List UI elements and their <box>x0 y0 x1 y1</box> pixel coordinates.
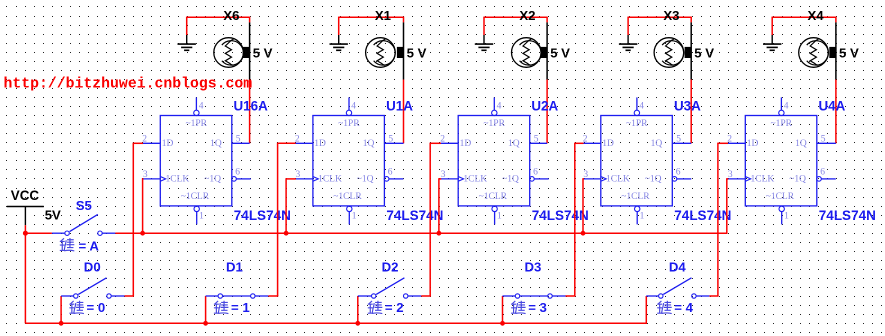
pin 1 (~1CLR) of U2A <box>492 206 502 224</box>
pin 5 (1Q) stub of U4A <box>817 135 836 145</box>
wire: lamp X6 to 1Q <box>249 80 251 144</box>
pin 2 (1D) stub of U16A <box>142 134 160 144</box>
wire: top wire X4 group <box>772 17 836 35</box>
wire: VCC junction to S5 <box>25 232 52 234</box>
op-amp/flip-flop U3A 74LS74N body <box>601 116 673 206</box>
lamp X2 <box>512 22 548 79</box>
inner pin labels of U3A <box>602 119 662 202</box>
svg-text:5: 5 <box>388 135 393 145</box>
svg-text:6: 6 <box>533 167 538 177</box>
switch S5 <box>52 214 116 235</box>
pin 4 (~1PR) of U4A <box>779 97 789 115</box>
lamp X1 <box>366 22 404 79</box>
svg-text:D0: D0 <box>84 259 101 274</box>
svg-text:5: 5 <box>676 135 681 145</box>
svg-text:1D: 1D <box>314 139 326 149</box>
wire: D3 switch to 1D of U3A <box>566 143 584 296</box>
pin 5 (1Q) stub of U16A <box>232 135 250 145</box>
wire: clock rail from S5 to all 1CLK pins <box>115 232 727 234</box>
wire: clock rail to 1CLK of U3A <box>582 178 585 233</box>
svg-text:1: 1 <box>640 211 645 221</box>
svg-text:~1CLR: ~1CLR <box>766 192 795 202</box>
svg-text:5: 5 <box>821 135 826 145</box>
svg-text:5 V: 5 V <box>694 45 714 60</box>
wire: lamp X2 to 1Q <box>546 80 548 144</box>
svg-text:74LS74N: 74LS74N <box>386 208 443 223</box>
svg-text:~1PR: ~1PR <box>338 119 360 129</box>
ground for X1 <box>330 35 348 50</box>
svg-text:4: 4 <box>351 102 356 112</box>
svg-text:2: 2 <box>727 134 732 144</box>
svg-text:U16A: U16A <box>234 98 269 113</box>
switch D1 <box>206 294 269 298</box>
junction on bottom rail at D2 <box>355 321 360 326</box>
svg-text:VCC: VCC <box>11 188 40 203</box>
pin 1 (~1CLR) of U3A <box>635 206 645 224</box>
wire: bottom rail to switches <box>25 322 647 324</box>
op-amp/flip-flop U4A 74LS74N body <box>745 116 817 206</box>
svg-text:~1CLR: ~1CLR <box>333 192 362 202</box>
wire: D0 switch to 1D of U16A <box>125 143 144 296</box>
wire: bottom rail up to switch D0 <box>60 296 62 323</box>
svg-text:4: 4 <box>199 102 204 112</box>
svg-text:6: 6 <box>676 167 681 177</box>
svg-text:6: 6 <box>388 167 393 177</box>
label key = 3 of D3 <box>511 300 547 315</box>
label key = 0 of D0 <box>69 300 105 315</box>
pin 1 (~1CLR) of U1A <box>347 206 357 224</box>
ground for X3 <box>619 35 637 50</box>
junction on bottom rail at D3 <box>500 321 505 326</box>
switch D3 <box>503 294 566 298</box>
svg-text:D3: D3 <box>525 259 542 274</box>
op-amp/flip-flop U2A 74LS74N body <box>458 116 530 206</box>
pin 4 (~1PR) of U2A <box>492 97 502 115</box>
svg-text:1Q: 1Q <box>508 139 520 149</box>
svg-text:1: 1 <box>784 211 789 221</box>
inner pin labels of U2A <box>460 119 520 202</box>
lamp X6 <box>214 22 250 79</box>
svg-text:~1CLR: ~1CLR <box>479 192 508 202</box>
svg-text:= 3: = 3 <box>528 300 547 315</box>
junction on bottom rail at D0 <box>59 321 64 326</box>
power VCC symbol <box>7 207 44 226</box>
svg-text:X4: X4 <box>808 8 825 23</box>
svg-text:3: 3 <box>143 170 148 180</box>
svg-text:X2: X2 <box>519 8 535 23</box>
pin 6 (~1Q) stub of U4A <box>817 167 836 181</box>
lamp X3 <box>654 22 691 79</box>
svg-text:~1PR: ~1PR <box>626 119 648 129</box>
wire: top wire X2 group <box>484 17 547 35</box>
svg-text:1CLK: 1CLK <box>606 175 630 185</box>
svg-text:5 V: 5 V <box>253 45 273 60</box>
svg-text:~1CLR: ~1CLR <box>621 192 650 202</box>
svg-text:1CLK: 1CLK <box>318 175 342 185</box>
svg-text:1CLK: 1CLK <box>463 175 487 185</box>
pin 2 (1D) stub of U2A <box>440 134 458 144</box>
wire: VCC junction down left side <box>24 233 26 323</box>
svg-text:74LS74N: 74LS74N <box>674 208 731 223</box>
wire: clock rail to 1CLK of U4A <box>727 178 729 233</box>
pin 4 (~1PR) of U16A <box>194 97 204 115</box>
ground for X2 <box>475 35 493 50</box>
svg-text:= 1: = 1 <box>231 300 250 315</box>
svg-text:4: 4 <box>639 102 644 112</box>
svg-text:3: 3 <box>296 170 301 180</box>
svg-text:~1PR: ~1PR <box>186 119 208 129</box>
pin 6 (~1Q) stub of U2A <box>530 167 549 181</box>
svg-text:2: 2 <box>440 134 445 144</box>
svg-text:3: 3 <box>728 170 733 180</box>
svg-text:6: 6 <box>820 167 825 177</box>
pin 2 (1D) stub of U3A <box>583 134 601 144</box>
pin 3 (1CLK) stub of U3A <box>583 170 601 180</box>
svg-text:5 V: 5 V <box>407 45 427 60</box>
switch D0 <box>61 278 124 298</box>
svg-text:http://bitzhuwei.cnblogs.com: http://bitzhuwei.cnblogs.com <box>4 76 253 92</box>
svg-text:2: 2 <box>295 134 300 144</box>
svg-text:5V: 5V <box>45 208 61 223</box>
svg-text:4: 4 <box>497 102 502 112</box>
svg-text:6: 6 <box>235 167 240 177</box>
wire: lamp X4 to 1Q <box>835 80 837 144</box>
svg-text:1CLK: 1CLK <box>751 175 775 185</box>
svg-text:D2: D2 <box>382 259 399 274</box>
svg-text:74LS74N: 74LS74N <box>532 208 589 223</box>
switch D4 <box>646 278 709 298</box>
svg-text:D1: D1 <box>226 259 243 274</box>
svg-text:S5: S5 <box>76 198 92 213</box>
wire: VCC to junction <box>24 225 26 233</box>
svg-text:~1Q: ~1Q <box>502 175 519 185</box>
inner pin labels of U1A <box>314 119 374 202</box>
label key = 4 of D4 <box>657 300 693 315</box>
svg-text:~1Q: ~1Q <box>357 175 374 185</box>
svg-text:3: 3 <box>441 170 446 180</box>
svg-text:= 4: = 4 <box>674 300 693 315</box>
pin 3 (1CLK) stub of U4A <box>728 170 746 180</box>
label key = A of S5 <box>60 238 100 253</box>
svg-text:~1PR: ~1PR <box>483 119 505 129</box>
wire: bottom rail up to switch D4 <box>645 296 647 323</box>
svg-text:U2A: U2A <box>531 98 558 113</box>
wire: bottom rail up to switch D3 <box>502 296 504 323</box>
wire: bottom rail up to switch D2 <box>357 296 359 323</box>
wire: D1 switch to 1D of U1A <box>268 143 295 296</box>
svg-text:1D: 1D <box>602 139 614 149</box>
svg-text:~1Q: ~1Q <box>204 175 221 185</box>
junction on clock rail at CLK of U2A <box>437 231 442 236</box>
svg-text:~1CLR: ~1CLR <box>181 192 210 202</box>
svg-text:74LS74N: 74LS74N <box>819 208 876 223</box>
wire: top wire X3 group <box>628 17 691 35</box>
svg-text:1Q: 1Q <box>795 139 807 149</box>
wire: D4 switch to 1D of U4A <box>709 143 728 296</box>
svg-text:1CLK: 1CLK <box>166 175 190 185</box>
svg-text:5 V: 5 V <box>550 45 570 60</box>
svg-text:5: 5 <box>236 135 241 145</box>
ground for X4 <box>763 35 781 50</box>
svg-text:D4: D4 <box>669 259 687 274</box>
svg-text:= 0: = 0 <box>87 300 106 315</box>
pin 6 (~1Q) stub of U1A <box>384 167 403 181</box>
junction on clock rail at CLK of U1A <box>284 231 289 236</box>
wire: lamp X3 to 1Q <box>690 80 692 144</box>
node: VCC junction <box>23 231 28 236</box>
svg-text:1: 1 <box>352 211 357 221</box>
svg-text:2: 2 <box>142 134 147 144</box>
wire: top wire X6 group <box>187 17 250 35</box>
svg-text:1D: 1D <box>747 139 759 149</box>
svg-text:U1A: U1A <box>386 98 413 113</box>
pin 5 (1Q) stub of U2A <box>530 135 547 145</box>
svg-text:X6: X6 <box>223 8 239 23</box>
wire: clock rail to 1CLK of U2A <box>439 178 441 233</box>
junction on clock rail at CLK of U16A <box>140 231 145 236</box>
svg-text:~1PR: ~1PR <box>771 119 793 129</box>
pin 3 (1CLK) stub of U16A <box>143 170 161 180</box>
lamp X4 <box>799 22 836 79</box>
switch D2 <box>358 278 421 298</box>
svg-text:U4A: U4A <box>819 98 846 113</box>
svg-text:X1: X1 <box>375 8 391 23</box>
wire: top wire X1 group <box>339 17 404 35</box>
op-amp/flip-flop U16A 74LS74N body <box>160 116 232 206</box>
junction on bottom rail at D1 <box>203 321 208 326</box>
wire: lamp X1 to 1Q <box>403 80 405 144</box>
pin 4 (~1PR) of U1A <box>346 97 356 115</box>
svg-text:1D: 1D <box>460 139 472 149</box>
svg-text:5: 5 <box>534 135 539 145</box>
pin 5 (1Q) stub of U1A <box>384 135 403 145</box>
svg-text:74LS74N: 74LS74N <box>234 208 291 223</box>
svg-text:X3: X3 <box>663 8 679 23</box>
svg-text:1D: 1D <box>162 139 174 149</box>
pin 2 (1D) stub of U4A <box>727 134 745 144</box>
pin 1 (~1CLR) of U16A <box>194 206 204 224</box>
wire: D2 switch to 1D of U2A <box>421 143 441 296</box>
pin 5 (1Q) stub of U3A <box>672 135 691 145</box>
svg-text:~1Q: ~1Q <box>789 175 806 185</box>
wire: bottom rail up to switch D1 <box>205 296 207 323</box>
pin 3 (1CLK) stub of U2A <box>441 170 459 180</box>
inner pin labels of U16A <box>162 119 222 202</box>
svg-text:1: 1 <box>199 211 204 221</box>
pin 6 (~1Q) stub of U16A <box>232 167 251 181</box>
label key = 2 of D2 <box>368 300 404 315</box>
pin 6 (~1Q) stub of U3A <box>672 167 691 181</box>
inner pin labels of U4A <box>747 119 807 202</box>
svg-text:1Q: 1Q <box>363 139 375 149</box>
svg-text:U3A: U3A <box>674 98 701 113</box>
svg-text:~1Q: ~1Q <box>645 175 662 185</box>
junction on clock rail at CLK of U3A <box>581 231 586 236</box>
svg-text:4: 4 <box>784 102 789 112</box>
svg-text:5 V: 5 V <box>839 45 859 60</box>
svg-text:2: 2 <box>583 134 588 144</box>
ground for X6 <box>178 35 196 50</box>
pin 2 (1D) stub of U1A <box>295 134 313 144</box>
svg-text:= 2: = 2 <box>385 300 404 315</box>
pin 1 (~1CLR) of U4A <box>779 206 789 224</box>
pin 3 (1CLK) stub of U1A <box>295 170 313 180</box>
wire: clock rail to 1CLK of U16A <box>142 178 145 233</box>
svg-text:= A: = A <box>79 238 100 253</box>
pin 4 (~1PR) of U3A <box>634 97 644 115</box>
op-amp/flip-flop U1A 74LS74N body <box>313 116 385 206</box>
svg-text:3: 3 <box>583 170 588 180</box>
svg-text:1Q: 1Q <box>210 139 222 149</box>
svg-text:1Q: 1Q <box>651 139 663 149</box>
wire: clock rail to 1CLK of U1A <box>286 178 296 233</box>
svg-text:1: 1 <box>497 211 502 221</box>
label key = 1 of D1 <box>214 300 250 315</box>
